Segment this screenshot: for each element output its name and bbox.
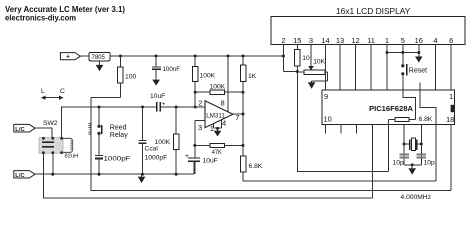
- node rail-1K: [242, 55, 245, 58]
- wire LCD pin2: [282, 45, 284, 72]
- resistor 47K: [195, 144, 210, 146]
- svg-text:6.8K: 6.8K: [419, 116, 433, 123]
- svg-text:12: 12: [351, 36, 359, 45]
- resistor 6.8K output: [240, 156, 246, 172]
- svg-text:10: 10: [324, 115, 332, 124]
- svg-text:15: 15: [293, 36, 301, 45]
- svg-text:Reset: Reset: [409, 68, 427, 75]
- wire LCD pin13: [339, 45, 341, 91]
- svg-text:L/C: L/C: [15, 127, 25, 133]
- inductor 82uH: [62, 138, 73, 152]
- wire LCD pin14: [325, 45, 327, 91]
- wire: [80, 55, 89, 57]
- svg-text:5: 5: [401, 36, 405, 45]
- relay contact: [98, 107, 100, 126]
- svg-text:Reed: Reed: [110, 124, 127, 131]
- op-amp LM311: [205, 101, 233, 128]
- svg-text:7805: 7805: [92, 55, 106, 61]
- wire LCD pin16 to ground: [418, 45, 420, 57]
- svg-text:10: 10: [302, 55, 310, 62]
- wire pin3: [195, 120, 205, 122]
- capacitor 100nF: [155, 56, 157, 67]
- svg-text:18: 18: [446, 115, 454, 124]
- svg-text:1000pF: 1000pF: [104, 156, 131, 163]
- node rail-100K: [194, 55, 197, 58]
- wire to relay coil: [91, 96, 121, 98]
- node 1K-100K: [242, 91, 245, 94]
- svg-text:L/C: L/C: [15, 173, 25, 179]
- wire SW2 rail R4: [43, 153, 372, 198]
- svg-text:+: +: [66, 54, 70, 61]
- wire output column: [242, 92, 244, 156]
- svg-text:4: 4: [433, 36, 437, 45]
- resistor 6.8K pullup: [409, 119, 416, 121]
- svg-text:+: +: [185, 153, 189, 160]
- svg-text:Ccal: Ccal: [145, 146, 159, 153]
- svg-text:4: 4: [222, 119, 226, 128]
- capacitor 1000pF relay: [95, 155, 103, 157]
- capacitor 10p right: [417, 154, 426, 156]
- svg-text:C: C: [60, 88, 65, 95]
- wire MCLR to 6.8K: [403, 90, 416, 119]
- svg-text:2: 2: [281, 36, 285, 45]
- resistor 100K bias: [175, 106, 178, 109]
- svg-text:PIC16F628A: PIC16F628A: [369, 104, 414, 113]
- svg-text:4.000MHz: 4.000MHz: [401, 194, 432, 201]
- potentiometer 10K: [297, 71, 304, 73]
- switch Reset: [401, 64, 404, 67]
- node rail-100nF: [155, 55, 158, 58]
- wire LCD pin1: [386, 45, 388, 91]
- LCD display box: [271, 16, 465, 44]
- svg-text:100nF: 100nF: [163, 66, 181, 73]
- wire LM311 out rail R2: [243, 180, 436, 182]
- svg-text:L: L: [41, 88, 45, 95]
- pin stub PIC pin3 top: [419, 82, 421, 90]
- ground 7805: [99, 61, 101, 65]
- svg-text:100K: 100K: [200, 73, 216, 80]
- svg-text:3: 3: [309, 36, 313, 45]
- wire pin7 output: [233, 113, 243, 115]
- svg-text:SW2: SW2: [43, 120, 58, 127]
- svg-text:82uH: 82uH: [65, 154, 79, 160]
- wire LCD pin4: [435, 45, 437, 91]
- wire PIC pin14 VDD: [388, 124, 390, 171]
- svg-text:1: 1: [449, 92, 453, 101]
- wire crystal gnd join: [404, 164, 421, 166]
- svg-text:8: 8: [221, 99, 225, 108]
- wire PIC pin13: [372, 124, 374, 198]
- wire PIC pin15 OSC: [403, 124, 405, 165]
- resistor 100K feedback horizontal: [195, 91, 210, 93]
- svg-text:9: 9: [324, 92, 328, 101]
- connector L/C bottom: [14, 171, 35, 178]
- svg-text:10uF: 10uF: [150, 93, 165, 100]
- capacitor Ccal 1000pF: [141, 106, 144, 109]
- relay coil wire: [90, 97, 92, 122]
- wire PIC pin18: [450, 124, 452, 190]
- svg-text:11: 11: [367, 36, 375, 45]
- resistor 1K: [242, 56, 244, 65]
- svg-text:1: 1: [385, 36, 389, 45]
- node rail-pin8: [226, 55, 229, 58]
- node rail-LCDpin2: [282, 55, 285, 58]
- wire LCD pin5: [402, 45, 404, 66]
- wire LCD pin12: [355, 45, 357, 91]
- wire gnd tie pins 1-5-16: [387, 52, 419, 54]
- svg-text:+: +: [162, 102, 166, 108]
- power connector +: [60, 53, 80, 60]
- svg-text:47K: 47K: [212, 149, 222, 156]
- wire PIC pin17: [435, 124, 437, 181]
- wire LCD pin6: [450, 45, 452, 91]
- svg-text:16x1 LCD DISPLAY: 16x1 LCD DISPLAY: [336, 6, 411, 16]
- capacitor 10p left: [400, 154, 409, 156]
- wire gnd bus: [35, 173, 194, 175]
- IC PIC16F628A box: [322, 90, 455, 124]
- pin stub PIC pin11: [340, 124, 342, 133]
- svg-text:3: 3: [198, 123, 202, 132]
- svg-text:13: 13: [336, 36, 344, 45]
- connector L/C top: [14, 124, 35, 132]
- svg-text:10p: 10p: [424, 160, 435, 167]
- notch mark: [451, 105, 455, 112]
- pin stub PIC pin10: [325, 124, 327, 133]
- svg-text:14: 14: [321, 36, 329, 45]
- ground gnd bus: [141, 174, 143, 176]
- regulator 7805: [89, 52, 110, 60]
- relay coil: [90, 122, 92, 136]
- svg-text:2: 2: [198, 99, 202, 108]
- svg-text:10K: 10K: [313, 59, 325, 66]
- svg-text:100: 100: [125, 74, 136, 81]
- crystal 4MHz: [404, 143, 410, 145]
- svg-text:100K: 100K: [210, 84, 226, 91]
- wire pins 1,4 gnd: [213, 124, 215, 128]
- wire T0CKI internal: [420, 90, 436, 124]
- svg-text:6: 6: [449, 36, 453, 45]
- node 5V-pot: [296, 70, 299, 73]
- tank rail wire: [62, 107, 157, 138]
- svg-text:10p: 10p: [393, 160, 404, 167]
- svg-text:1K: 1K: [248, 73, 257, 80]
- wire LCD pin3 to pot wiper: [310, 45, 312, 66]
- resistor 100K upper: [194, 56, 196, 67]
- LCD pin labels: [281, 36, 453, 45]
- svg-text:1000pF: 1000pF: [145, 155, 168, 162]
- svg-text:6.8K: 6.8K: [249, 163, 263, 170]
- svg-text:100K: 100K: [155, 139, 171, 146]
- wire 5V return rail R1: [297, 72, 388, 172]
- svg-text:10uF: 10uF: [203, 158, 218, 165]
- svg-text:16: 16: [415, 36, 423, 45]
- node 100K junction: [194, 91, 197, 94]
- pin stub PIC pin12: [356, 124, 358, 133]
- ground crystal: [411, 165, 413, 168]
- wire pin8: [227, 56, 229, 112]
- node rail-100: [119, 55, 122, 58]
- svg-text:electronics-diy.com: electronics-diy.com: [5, 14, 76, 23]
- wire PIC pin16 OSC: [420, 124, 422, 165]
- resistor 10: [296, 45, 298, 50]
- ground pot: [311, 81, 313, 82]
- resistor 100: [119, 56, 121, 67]
- wire SW2 to gnd wire: [52, 153, 54, 174]
- wire LCD pin11: [370, 45, 372, 91]
- wire relay coil rail R3: [91, 136, 451, 191]
- wire 5V rail: [110, 55, 283, 57]
- svg-text:Relay: Relay: [110, 132, 128, 139]
- node contact-rail: [98, 106, 101, 109]
